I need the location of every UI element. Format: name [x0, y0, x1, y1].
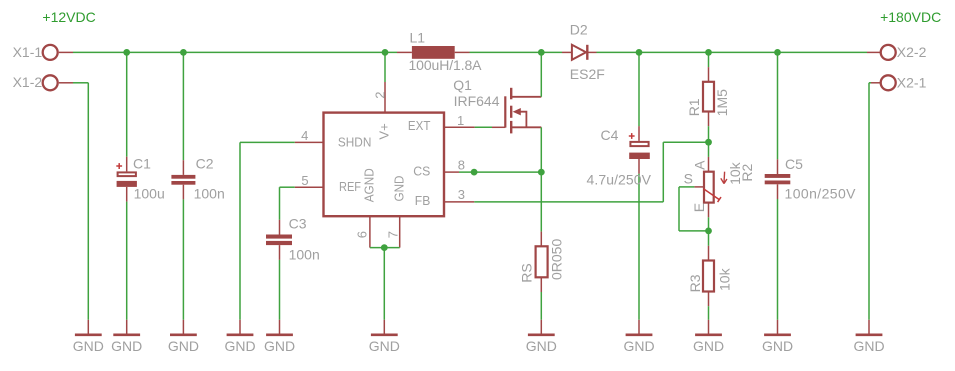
drain lead [511, 96, 541, 98]
svg-text:C5: C5 [785, 156, 803, 172]
junction C5/rail [774, 49, 781, 56]
ground [168, 320, 199, 354]
junction pin2/rail [382, 49, 389, 56]
svg-text:GND: GND [853, 338, 884, 354]
svg-text:GND: GND [391, 176, 406, 202]
svg-text:V+: V+ [377, 123, 392, 139]
wire top rail mid (L1 to D2) [470, 51, 563, 53]
svg-text:8: 8 [458, 158, 465, 173]
ground [73, 320, 104, 354]
svg-text:EXT: EXT [408, 118, 431, 133]
wire pins 6-7 to GND [370, 248, 400, 320]
svg-text:CS: CS [413, 163, 430, 178]
connector X2-1 [871, 75, 927, 91]
junction L1/D2/Q1 [538, 49, 545, 56]
svg-text:L1: L1 [410, 30, 426, 46]
svg-text:100n/250V: 100n/250V [785, 186, 857, 202]
wire top rail right (D2 to X2-2) [597, 51, 868, 53]
svg-text:3: 3 [458, 187, 465, 202]
ground [693, 320, 724, 354]
junction pins 6-7 [381, 244, 388, 251]
ground [623, 320, 654, 354]
svg-text:GND: GND [168, 338, 199, 354]
svg-text:AGND: AGND [361, 168, 376, 202]
svg-text:D2: D2 [570, 22, 588, 38]
pin 5 (REF) [280, 173, 324, 220]
pin 8 (CS) [444, 158, 541, 173]
svg-text:7: 7 [385, 231, 400, 238]
svg-text:SHDN: SHDN [338, 134, 372, 149]
svg-text:X1-2: X1-2 [13, 74, 43, 90]
ground [224, 320, 255, 354]
pin 4 (SHDN) [240, 128, 324, 320]
transistor Q1 IRF644 [453, 52, 541, 133]
svg-text:C2: C2 [196, 155, 214, 171]
svg-text:GND: GND [73, 338, 104, 354]
svg-text:GND: GND [224, 338, 255, 354]
svg-text:R1: R1 [686, 98, 702, 116]
capacitor C4 [587, 52, 652, 319]
capacitor C3 [266, 215, 320, 319]
svg-text:+12VDC: +12VDC [42, 9, 95, 25]
svg-text:X2-1: X2-1 [897, 75, 927, 91]
svg-text:C4: C4 [601, 127, 619, 143]
svg-text:A: A [692, 160, 708, 170]
svg-text:10k: 10k [716, 267, 732, 291]
svg-text:C1: C1 [133, 155, 151, 171]
svg-text:1: 1 [457, 113, 464, 128]
gate bar [504, 96, 506, 127]
svg-text:Q1: Q1 [453, 77, 472, 93]
junction R2 wiper/E node [705, 228, 712, 235]
svg-text:4: 4 [301, 128, 308, 143]
ground [369, 320, 400, 354]
connector X1-2 [13, 74, 73, 90]
svg-text:100n: 100n [289, 246, 320, 262]
resistor R3 [687, 246, 733, 320]
svg-text:GND: GND [111, 338, 142, 354]
svg-text:GND: GND [623, 338, 654, 354]
junction R1/FB node [705, 139, 712, 146]
connector X2-2 [867, 44, 927, 60]
svg-text:1M5: 1M5 [714, 89, 730, 116]
svg-text:6: 6 [355, 231, 370, 238]
connector X1-1 [13, 44, 73, 60]
channel segments [510, 88, 512, 100]
pin 3 (FB) [444, 142, 709, 202]
svg-text:IRF644: IRF644 [454, 93, 500, 109]
wire Q1 source to RS [540, 127, 542, 231]
svg-text:0R050: 0R050 [549, 239, 565, 280]
capacitor C5 [765, 52, 856, 319]
bulk arrow [513, 108, 521, 115]
svg-text:S: S [684, 171, 693, 187]
svg-text:REF: REF [339, 179, 361, 194]
junction CS/RS column [538, 169, 545, 176]
svg-text:RS: RS [519, 263, 535, 282]
svg-text:4.7u/250V: 4.7u/250V [587, 171, 652, 187]
svg-text:GND: GND [693, 338, 724, 354]
ground [526, 320, 557, 354]
resistor R1 [686, 52, 730, 156]
resistor RS [519, 232, 565, 320]
diode D2 [562, 22, 605, 82]
svg-text:E: E [691, 203, 707, 212]
svg-text:+180VDC: +180VDC [880, 9, 941, 25]
svg-text:R2: R2 [739, 163, 755, 181]
wire top rail left (X1-1 to L1) [73, 51, 397, 53]
wire X2-1 to GND column [869, 83, 871, 320]
svg-text:FB: FB [415, 193, 431, 208]
svg-text:X2-2: X2-2 [897, 44, 927, 60]
svg-text:C3: C3 [289, 215, 307, 231]
junction R1/rail [705, 49, 712, 56]
junction CS wire [471, 169, 478, 176]
capacitor C1 [116, 52, 164, 319]
svg-text:100n: 100n [194, 186, 225, 202]
svg-text:ES2F: ES2F [570, 66, 605, 82]
svg-text:GND: GND [762, 338, 793, 354]
junction D2/C4 [636, 49, 643, 56]
op-amp U1 (MAX1771 controller box) [324, 113, 445, 217]
potentiometer R2 [679, 157, 755, 246]
source lead [511, 126, 541, 128]
wire X1-2 to GND column [73, 83, 88, 320]
junction C1/rail [123, 49, 130, 56]
gate pin [492, 126, 505, 128]
ground [762, 320, 793, 354]
ground [853, 320, 884, 354]
junction C2/rail [180, 49, 187, 56]
pin 1 (EXT) [444, 113, 475, 128]
svg-text:5: 5 [301, 173, 308, 188]
pin 7 (GND) [385, 216, 400, 247]
svg-text:2: 2 [373, 92, 388, 99]
svg-text:100u: 100u [134, 186, 165, 202]
ground [264, 320, 295, 354]
pin 2 (V+) [373, 52, 388, 112]
svg-text:GND: GND [369, 338, 400, 354]
capacitor C2 [171, 52, 224, 319]
svg-text:GND: GND [526, 338, 557, 354]
ground [111, 320, 142, 354]
svg-text:GND: GND [264, 338, 295, 354]
svg-text:X1-1: X1-1 [13, 44, 43, 60]
svg-text:R3: R3 [687, 274, 703, 292]
svg-text:100uH/1.8A: 100uH/1.8A [409, 57, 483, 73]
pin 6 (AGND) [355, 216, 370, 247]
inductor L1 [397, 30, 482, 73]
